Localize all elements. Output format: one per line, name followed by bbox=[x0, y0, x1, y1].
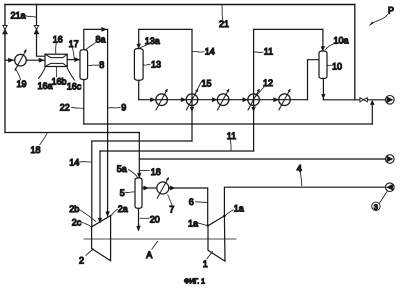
11 loop top line bbox=[254, 28, 323, 30]
separator 2 (inclined separator) bbox=[92, 216, 111, 261]
label 20 bbox=[140, 214, 160, 224]
svg-text:P: P bbox=[388, 6, 394, 16]
label 10a bbox=[325, 35, 348, 50]
valve on left vertical bbox=[3, 25, 7, 33]
svg-text:20: 20 bbox=[150, 214, 160, 224]
svg-text:1a: 1a bbox=[234, 203, 244, 213]
vessel 16 skirt left (16a) bbox=[39, 67, 46, 79]
wire: line 14 vertical through pump 15 bbox=[191, 29, 193, 141]
svg-text:8a: 8a bbox=[96, 35, 106, 45]
wire: line 9 long vertical down to separator 2 bbox=[107, 29, 109, 216]
label 15 bbox=[195, 79, 211, 94]
label 13a bbox=[140, 36, 160, 48]
svg-text:1a: 1a bbox=[188, 218, 198, 228]
svg-text:16c: 16c bbox=[67, 82, 82, 92]
13 loop: top line bbox=[139, 28, 192, 30]
wire: riser to vessel 10 inlet bbox=[308, 60, 319, 100]
label 16c bbox=[67, 82, 82, 92]
label 19 bbox=[15, 69, 26, 89]
svg-text:2a: 2a bbox=[118, 204, 128, 214]
label 21a bbox=[11, 11, 37, 21]
label 16b bbox=[52, 67, 67, 86]
svg-text:16b: 16b bbox=[52, 77, 67, 87]
svg-text:A: A bbox=[146, 250, 152, 260]
valve on product line bbox=[360, 98, 367, 102]
label P with arrow bbox=[369, 6, 394, 27]
svg-text:18: 18 bbox=[151, 167, 161, 177]
svg-text:3: 3 bbox=[374, 202, 378, 211]
label 6 bbox=[189, 197, 208, 207]
label 2c bbox=[72, 217, 92, 227]
svg-text:10: 10 bbox=[332, 61, 342, 71]
pump 19 (circle with slash) bbox=[15, 49, 27, 70]
wire: line 11 drop into separator 2 with arrow bbox=[99, 151, 101, 222]
vessel 8 (vertical cylinder) bbox=[80, 50, 88, 80]
wire: drop into vessel 10 with arrow bbox=[322, 29, 324, 50]
arrow into pump 12 bbox=[243, 98, 248, 102]
wire: vessel 13 bottoms to exchanger train bbox=[138, 80, 140, 99]
svg-text:2b: 2b bbox=[69, 204, 79, 214]
wire: top recycle header line 21 bbox=[5, 4, 355, 6]
cylinder 5 (small vertical vessel) bbox=[135, 178, 142, 209]
label 9 bbox=[108, 103, 126, 113]
svg-text:4: 4 bbox=[297, 163, 302, 173]
label 21 bbox=[219, 6, 229, 30]
svg-text:5a: 5a bbox=[117, 164, 127, 174]
arrow into exchanger E1 bbox=[151, 98, 156, 102]
exchanger E3 bbox=[279, 89, 291, 110]
wire: pump 19 to vessel 16 with arrow bbox=[26, 59, 45, 61]
svg-text:17: 17 bbox=[69, 39, 79, 49]
label 3 (circled) bbox=[372, 191, 388, 211]
label 22 bbox=[60, 103, 84, 113]
pump 15 (circle with slash, through-flow) bbox=[186, 89, 198, 110]
svg-text:16: 16 bbox=[53, 35, 63, 45]
label 2b bbox=[69, 204, 95, 221]
svg-text:2c: 2c bbox=[72, 217, 82, 227]
svg-text:18: 18 bbox=[31, 145, 41, 155]
label 1 bbox=[203, 252, 213, 269]
wire: line 22 riser with arrow into product line bbox=[371, 103, 373, 124]
wire: vessel 10 bottoms to product line with down arrow bbox=[322, 79, 324, 100]
arrow into exchanger E2 bbox=[212, 98, 217, 102]
svg-text:21a: 21a bbox=[11, 11, 26, 21]
svg-text:15: 15 bbox=[202, 79, 212, 89]
wire: line 11 horizontal to separator 2 bbox=[100, 150, 254, 152]
valve on line 21a bbox=[34, 25, 38, 33]
vessel 10 (vertical cylinder) bbox=[319, 51, 327, 79]
wire: vessel 8 overhead line to line 9 with arrow bbox=[84, 29, 107, 49]
label 17 bbox=[69, 39, 79, 59]
datum line A bbox=[84, 238, 236, 240]
vessel 16 skirt right (16c) bbox=[67, 67, 75, 80]
wire: line 22 long horizontal bbox=[84, 123, 373, 125]
pump 7 (circle with slash) bbox=[157, 177, 169, 198]
wire: feed line into pump 19 with arrow bbox=[5, 59, 15, 61]
label 8 bbox=[88, 60, 104, 70]
vessel 13 (vertical cylinder) bbox=[134, 49, 143, 81]
arrow into pump 15 bbox=[181, 98, 186, 102]
svg-text:6: 6 bbox=[189, 197, 194, 207]
svg-text:13a: 13a bbox=[145, 36, 160, 46]
svg-text:ФИГ. 1: ФИГ. 1 bbox=[184, 279, 205, 286]
wire: line 18 vertical down into cylinder 5 with arrow bbox=[138, 133, 140, 178]
label 16 bbox=[53, 35, 63, 54]
svg-text:8: 8 bbox=[99, 60, 104, 70]
svg-text:11: 11 bbox=[227, 131, 236, 141]
svg-text:21: 21 bbox=[219, 19, 229, 29]
label 18 (left) bbox=[31, 134, 48, 156]
label 11 (top) bbox=[254, 47, 273, 57]
label 5a bbox=[117, 164, 138, 178]
exchanger E1 (circle with slash) bbox=[156, 89, 168, 110]
label A bbox=[146, 241, 157, 260]
wire: separated liquid line to outlet (from line 18 tee) bbox=[139, 158, 385, 160]
label 18 (right) bbox=[140, 167, 161, 177]
exchanger E2 bbox=[217, 89, 229, 110]
arrow into exchanger E3 bbox=[274, 98, 279, 102]
feed inlet symbol (circle with filled left arrow) bbox=[386, 183, 395, 192]
svg-text:22: 22 bbox=[60, 103, 70, 113]
wire: feed line 4 to separator 1 bbox=[224, 187, 385, 215]
svg-text:7: 7 bbox=[169, 204, 174, 214]
label 11 (mid) bbox=[227, 131, 236, 150]
vessel 16 (horizontal drum with dished ends) bbox=[45, 54, 67, 66]
label 12 bbox=[256, 78, 273, 96]
wire: exchanger train line bbox=[139, 99, 308, 101]
wire: right outer vertical from header to product line bbox=[354, 5, 356, 100]
wire: left outer vertical (line 18 drop) bbox=[4, 5, 6, 133]
label 7 bbox=[168, 195, 175, 214]
wire: product line to outlet bbox=[323, 99, 385, 101]
label 5 bbox=[120, 188, 135, 198]
svg-text:1: 1 bbox=[203, 259, 208, 269]
svg-text:16a: 16a bbox=[38, 81, 53, 91]
wire: line 20 from cylinder 5 bottom with arrow bbox=[138, 208, 140, 230]
wire: line 14 horizontal to separator 2 bbox=[92, 140, 192, 142]
svg-text:14: 14 bbox=[69, 158, 79, 168]
svg-text:13: 13 bbox=[151, 60, 161, 70]
wire: line 6 from pump 7 to separator 1 bbox=[169, 188, 208, 226]
wire: line 14 drop into separator 2 bbox=[91, 141, 93, 227]
outlet symbol mid (circle with filled arrow) bbox=[386, 155, 395, 164]
label 2 bbox=[79, 249, 93, 266]
svg-text:2: 2 bbox=[79, 256, 84, 266]
label 8a bbox=[86, 35, 105, 50]
wire: line 6 drop junction bbox=[207, 224, 209, 226]
wire: vessel 16 to vessel 8 with arrow (line 17) bbox=[67, 59, 79, 61]
wire: line 11 vertical through pump 12 bbox=[253, 29, 255, 151]
label 1a (right) bbox=[225, 203, 244, 215]
separator 1 (inclined separator) bbox=[208, 216, 225, 261]
label 14 (top) bbox=[192, 47, 215, 57]
svg-text:5: 5 bbox=[120, 188, 125, 198]
label 10 bbox=[327, 61, 342, 71]
label 1a (left) bbox=[188, 218, 207, 228]
wire: drop into vessel 13 with arrow bbox=[138, 29, 140, 48]
pump 12 (circle with slash, through-flow) bbox=[248, 89, 260, 110]
svg-text:19: 19 bbox=[17, 79, 27, 89]
label 13 bbox=[143, 60, 161, 70]
junction dot separator 1 inlet bbox=[223, 215, 226, 218]
wire: line 18 horizontal from left vertical bbox=[5, 132, 139, 134]
svg-text:10a: 10a bbox=[334, 35, 349, 45]
wire: cylinder 5 side outlet with arrow to pump 7 bbox=[142, 187, 157, 189]
label 4 bbox=[297, 163, 302, 186]
label 14 (left) bbox=[69, 158, 91, 168]
wire: line 22 from vessel 8 bottom bbox=[83, 80, 85, 124]
svg-text:9: 9 bbox=[121, 103, 126, 113]
product outlet symbol (circle with filled arrow) bbox=[386, 96, 395, 105]
wire: line 21a vertical drop to vessel 16 bbox=[37, 5, 45, 57]
svg-text:12: 12 bbox=[263, 78, 273, 88]
label 2a bbox=[111, 204, 128, 216]
label 16a bbox=[38, 81, 53, 91]
svg-text:14: 14 bbox=[205, 47, 215, 57]
svg-text:11: 11 bbox=[264, 47, 273, 57]
